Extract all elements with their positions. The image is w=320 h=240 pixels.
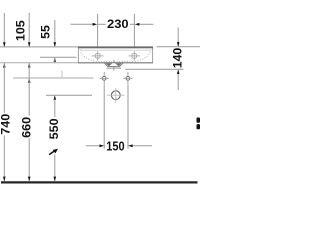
svg-text:140: 140 <box>171 47 185 68</box>
svg-text:740: 740 <box>0 113 13 134</box>
svg-text:150: 150 <box>106 138 124 153</box>
svg-text:230: 230 <box>107 18 129 31</box>
svg-text:105: 105 <box>14 20 28 41</box>
svg-text:55: 55 <box>39 25 53 39</box>
svg-text:550: 550 <box>47 118 61 139</box>
svg-text:660: 660 <box>20 116 34 137</box>
